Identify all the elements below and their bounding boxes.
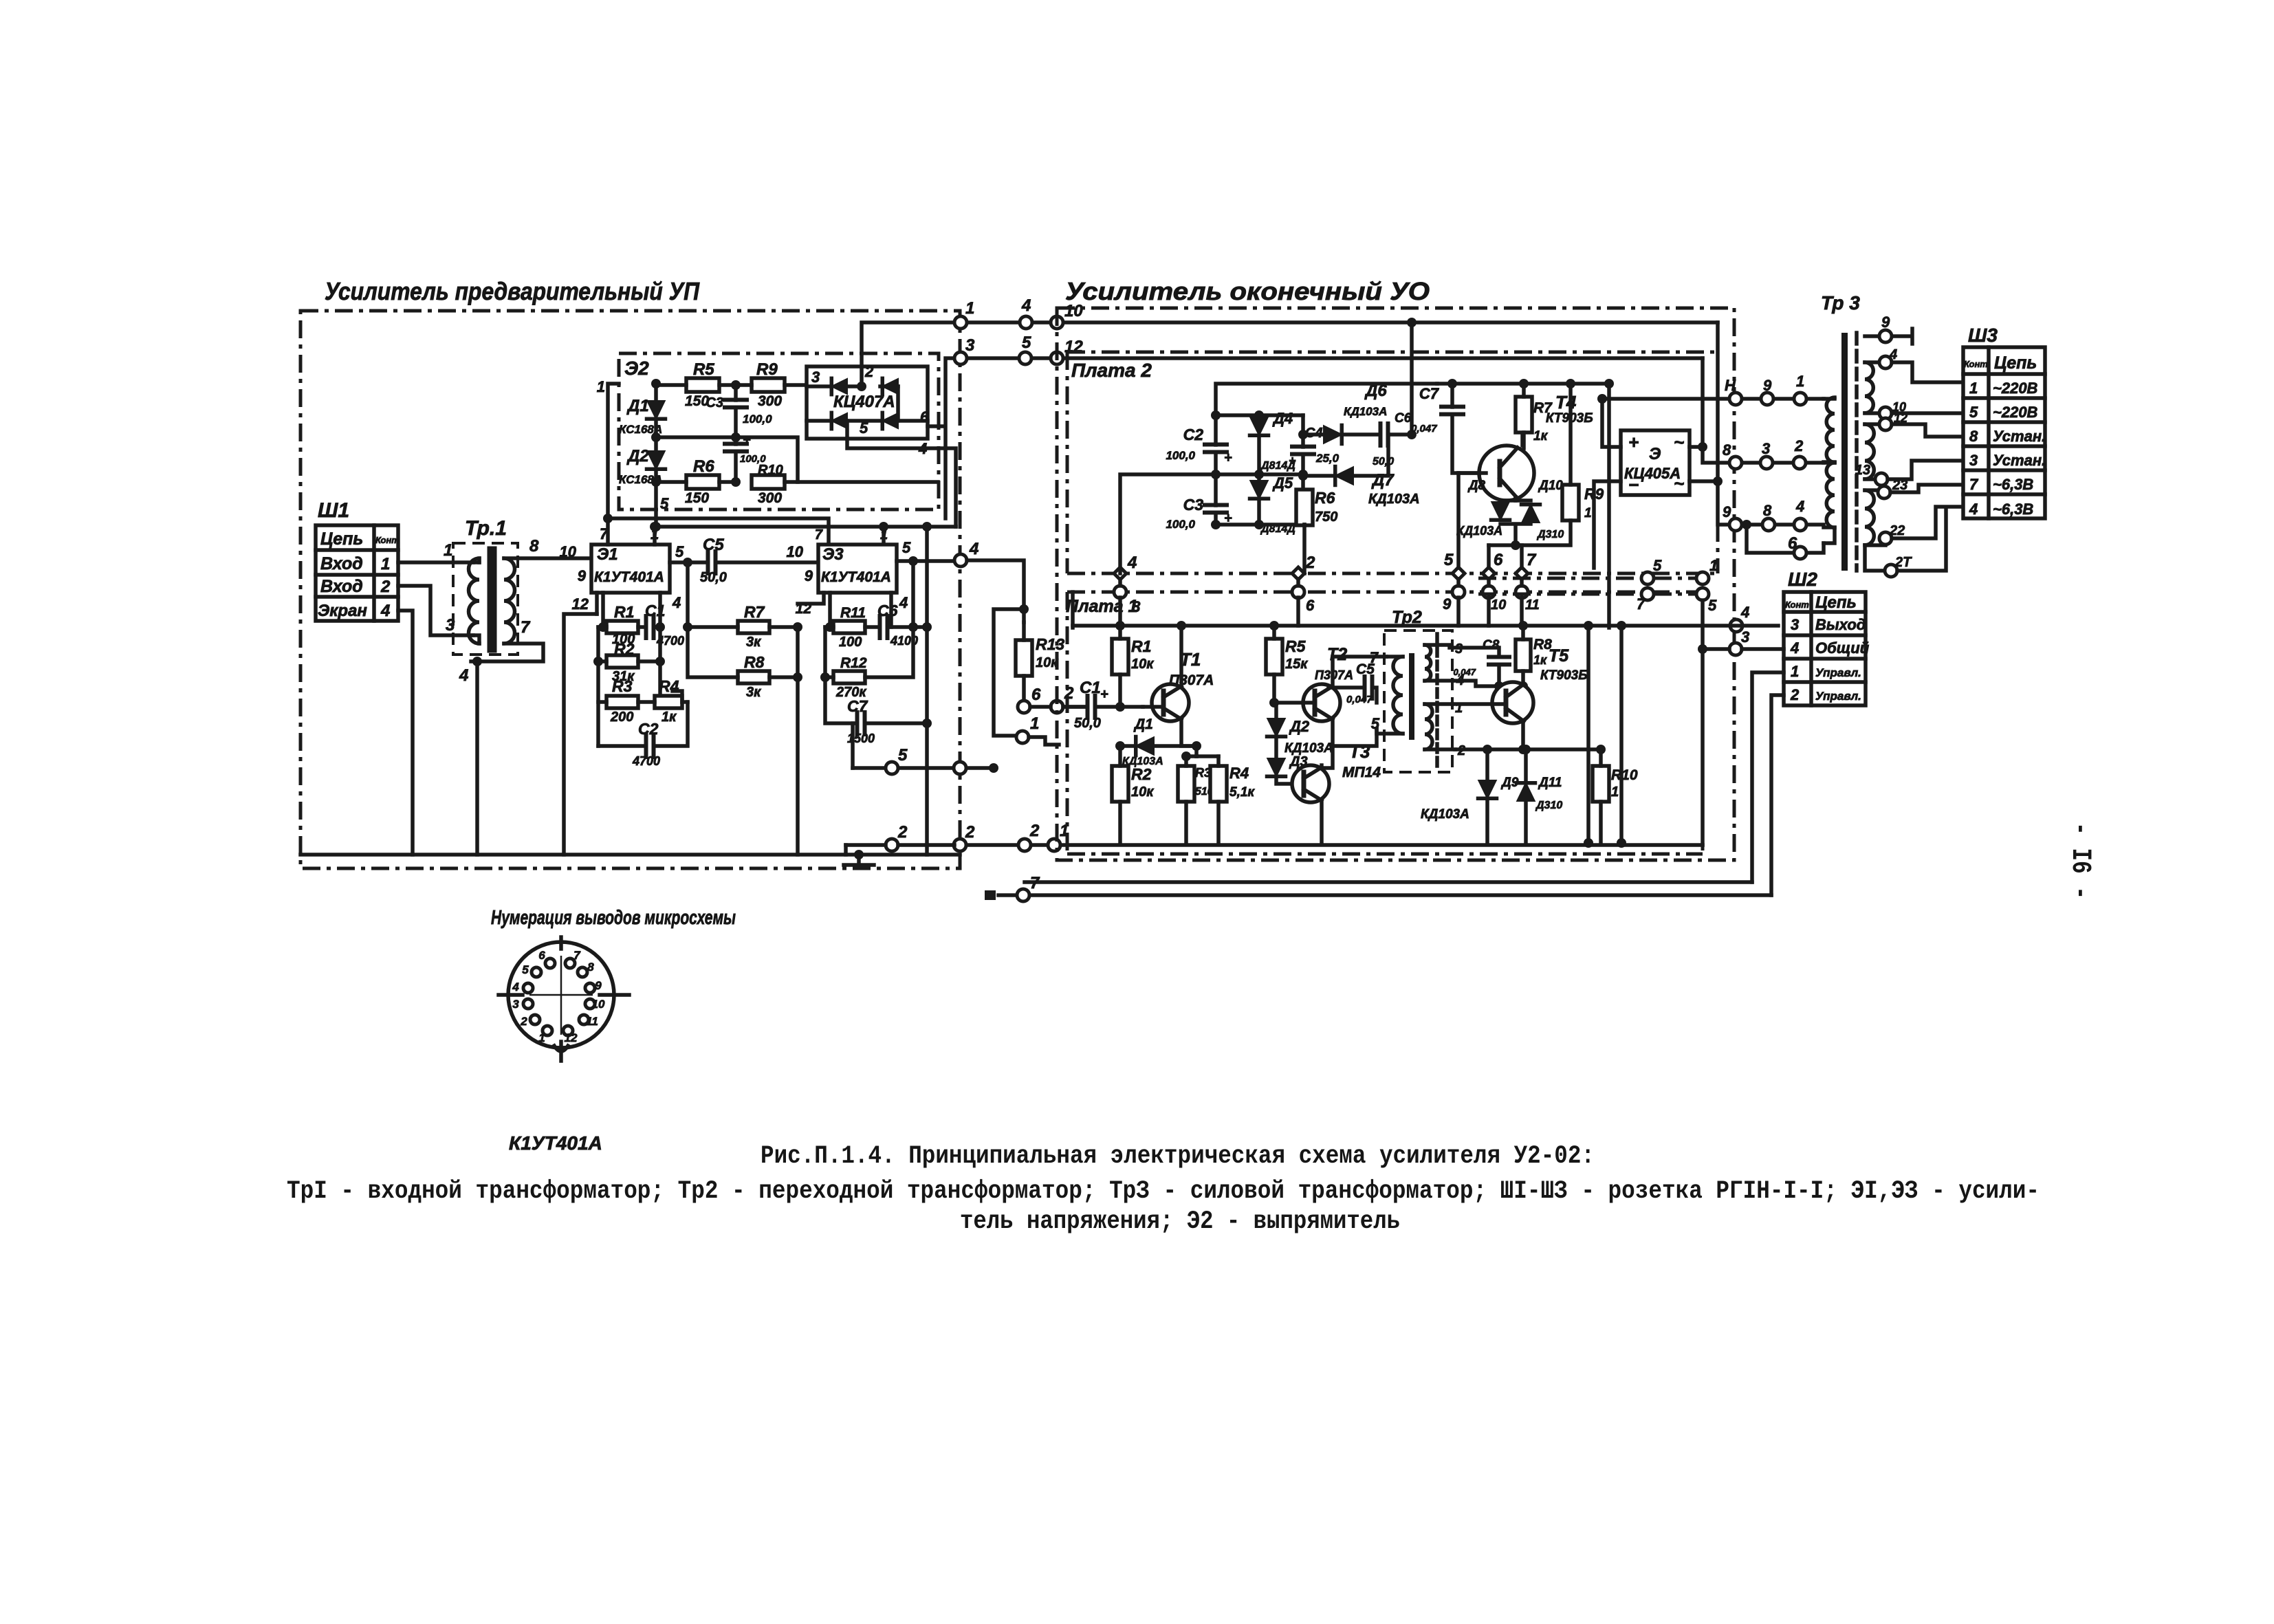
diode Д6 КД103А bbox=[1324, 426, 1342, 443]
svg-text:9: 9 bbox=[1443, 595, 1452, 613]
wire Ш1.4 shield to ground rail bbox=[398, 611, 413, 855]
wires Д4 Д5 column bbox=[1257, 415, 1261, 525]
ground symbol bbox=[844, 855, 874, 865]
svg-text:1: 1 bbox=[538, 1031, 545, 1044]
svg-text:300: 300 bbox=[758, 393, 782, 409]
svg-text:6: 6 bbox=[1494, 551, 1503, 569]
svg-text:Цепь: Цепь bbox=[1994, 353, 2037, 373]
svg-text:5: 5 bbox=[1708, 597, 1717, 614]
svg-text:4: 4 bbox=[1021, 296, 1031, 315]
resistor R2 10к bbox=[1112, 766, 1128, 802]
wire Тр1 pin4 down to rail bbox=[475, 661, 479, 855]
svg-text:+: + bbox=[1100, 687, 1108, 702]
svg-text:К1УТ401А: К1УТ401А bbox=[509, 1132, 602, 1154]
svg-text:Д2: Д2 bbox=[626, 447, 649, 465]
svg-text:Т2: Т2 bbox=[1327, 645, 1347, 664]
svg-text:5: 5 bbox=[898, 746, 908, 765]
resistor R10 300 bbox=[752, 475, 785, 489]
svg-text:Экран: Экран bbox=[318, 602, 367, 620]
ground rail УП bbox=[300, 853, 960, 857]
svg-text:1к: 1к bbox=[662, 710, 677, 725]
terminal 5 bbox=[1019, 352, 1031, 364]
node row right 1-5 bbox=[1641, 572, 1654, 584]
svg-text:11: 11 bbox=[586, 1015, 598, 1028]
transformer Тр3 primary winding lower bbox=[1824, 461, 1835, 465]
svg-text:10: 10 bbox=[1491, 597, 1506, 613]
diode Д2 КД103А bbox=[1267, 718, 1285, 736]
svg-text:Цепь: Цепь bbox=[320, 529, 363, 549]
wire loop Общий bbox=[1025, 880, 1752, 884]
wire КЦ407А pin2 to bus1 bbox=[862, 322, 954, 366]
svg-text:2: 2 bbox=[1029, 822, 1040, 840]
svg-text:7: 7 bbox=[1637, 595, 1646, 613]
wires Ш2 rows bbox=[1730, 619, 1742, 632]
svg-text:С5: С5 bbox=[703, 536, 724, 554]
capacitor C3 100,0 плата2 bbox=[1205, 505, 1227, 513]
svg-text:Рис.П.1.4. Принципиальная элек: Рис.П.1.4. Принципиальная электрическая … bbox=[761, 1142, 1595, 1171]
svg-text:1к: 1к bbox=[1533, 653, 1547, 667]
svg-text:Усилитель оконечный УО: Усилитель оконечный УО bbox=[1065, 277, 1430, 305]
transformer Тр2 secondary lower bbox=[1425, 704, 1432, 749]
resistor R8 3к bbox=[738, 671, 769, 683]
svg-text:~: ~ bbox=[1674, 473, 1684, 494]
svg-text:4: 4 bbox=[672, 594, 681, 611]
wire плата2 cluster to node2 bbox=[1302, 525, 1307, 573]
capacitor С8 0,047 bbox=[1489, 657, 1509, 665]
wire loop Управл bbox=[998, 893, 1771, 897]
svg-text:2: 2 bbox=[897, 823, 908, 842]
rectifier bridge КЦ407А bbox=[807, 366, 928, 439]
bus wire 1-4-10 bbox=[967, 320, 1718, 325]
transformer Тр2 primary bbox=[1386, 655, 1403, 659]
svg-text:С6: С6 bbox=[877, 602, 898, 619]
svg-text:25,0: 25,0 bbox=[1315, 452, 1340, 465]
wires C2 C3 column bbox=[1214, 415, 1218, 525]
wire Э3 pin12/pin4 bbox=[825, 593, 891, 677]
svg-text:8: 8 bbox=[1723, 441, 1731, 459]
svg-text:5: 5 bbox=[1371, 715, 1380, 732]
transformer Тр2 secondary upper bbox=[1425, 645, 1431, 681]
svg-text:3: 3 bbox=[965, 336, 975, 355]
wire Т2 emitter to Т3 collector bbox=[1322, 719, 1333, 768]
svg-text:2: 2 bbox=[1790, 686, 1800, 703]
svg-text:Выход: Выход bbox=[1815, 616, 1866, 633]
svg-text:Д310: Д310 bbox=[1536, 529, 1564, 540]
capacitor C3 100,0 bbox=[725, 400, 747, 408]
capacitor C7 0,047 bbox=[1441, 407, 1463, 415]
rectifier Э КЦ405А bbox=[1621, 430, 1690, 495]
wire Т1 collector to rail bbox=[1179, 626, 1183, 687]
svg-text:2: 2 bbox=[1794, 437, 1804, 454]
wire Э2 pin1 to Э1 pin7 bbox=[608, 384, 619, 545]
svg-text:тель напряжения; Э2 - выпрямит: тель напряжения; Э2 - выпрямитель bbox=[960, 1207, 1400, 1236]
svg-text:2: 2 bbox=[965, 823, 975, 842]
svg-text:Тр.1: Тр.1 bbox=[465, 517, 507, 540]
svg-text:9: 9 bbox=[1723, 503, 1731, 520]
svg-text:4: 4 bbox=[1969, 501, 1978, 518]
wire row 5 into УП bbox=[851, 723, 855, 768]
svg-text:1: 1 bbox=[444, 541, 452, 560]
wire КЦ407А pin6 loop bbox=[928, 358, 954, 518]
svg-text:С1: С1 bbox=[1080, 679, 1101, 697]
svg-text:R5: R5 bbox=[693, 360, 714, 379]
svg-text:6: 6 bbox=[538, 949, 545, 962]
svg-text:2: 2 bbox=[520, 1015, 527, 1028]
wire Э3 pin9 down bbox=[798, 593, 824, 604]
svg-text:КД103А: КД103А bbox=[1368, 492, 1420, 507]
svg-text:Д11: Д11 bbox=[1538, 776, 1562, 790]
svg-text:Устан.: Устан. bbox=[1993, 428, 2046, 445]
svg-text:1: 1 bbox=[965, 299, 974, 318]
capacitor C1 4700 bbox=[646, 616, 654, 638]
svg-text:1к: 1к bbox=[1533, 429, 1549, 443]
wire left interface into плата1 bbox=[1071, 592, 1075, 628]
svg-text:0,047: 0,047 bbox=[1411, 423, 1437, 435]
svg-text:С6: С6 bbox=[1395, 411, 1412, 426]
resistor R9 1 bbox=[1562, 485, 1579, 520]
wire parallel drop bbox=[994, 609, 1024, 736]
svg-text:Тр2: Тр2 bbox=[1392, 608, 1422, 627]
wires Тр3 to Ш3 bbox=[1892, 362, 1963, 382]
svg-text:3: 3 bbox=[512, 998, 519, 1011]
svg-text:3: 3 bbox=[1741, 628, 1749, 646]
svg-text:Д5: Д5 bbox=[1272, 474, 1293, 492]
svg-text:4: 4 bbox=[969, 540, 979, 558]
terminal 1 bbox=[1016, 731, 1029, 743]
svg-text:5,1к: 5,1к bbox=[1229, 785, 1255, 800]
svg-text:9: 9 bbox=[595, 979, 602, 992]
svg-text:7: 7 bbox=[573, 949, 581, 962]
wire Ш1.2 to Тр1 pin3 bbox=[398, 586, 473, 635]
svg-text:6: 6 bbox=[920, 408, 929, 426]
wire Т3 emitter down bbox=[1320, 800, 1324, 844]
svg-text:Д1: Д1 bbox=[1133, 716, 1153, 732]
wire row 9-8-4 to Тр3 bbox=[1740, 523, 1824, 527]
capacitor C6 4100 bbox=[880, 616, 888, 638]
pinout notch bbox=[554, 1046, 568, 1051]
wires из nodes to плата1 bbox=[1120, 579, 1522, 586]
svg-text:0,047: 0,047 bbox=[1453, 667, 1476, 677]
diode Д9 КД103А bbox=[1478, 780, 1496, 798]
terminal 6 bbox=[1018, 701, 1030, 713]
svg-text:100,0: 100,0 bbox=[1166, 449, 1195, 462]
wire плата1 вход from С1 bbox=[1063, 705, 1087, 709]
svg-text:R11: R11 bbox=[840, 605, 866, 621]
resistor R10 1 bbox=[1593, 766, 1609, 802]
capacitor С5 0,047 bbox=[1365, 677, 1373, 699]
frame Плата 1 dashed box bbox=[1067, 592, 1703, 854]
svg-text:10к: 10к bbox=[1131, 784, 1154, 800]
resistor R6 150 bbox=[686, 475, 719, 489]
svg-text:КТ903Б: КТ903Б bbox=[1540, 668, 1588, 683]
wire C6 to bus1 bbox=[1410, 322, 1414, 435]
svg-text:4: 4 bbox=[1740, 604, 1749, 621]
svg-text:R2: R2 bbox=[1131, 765, 1152, 783]
rails плата2 cluster bbox=[1216, 415, 1304, 525]
resistor R6 750 bbox=[1296, 490, 1313, 525]
svg-text:5: 5 bbox=[1444, 551, 1454, 569]
svg-text:4: 4 bbox=[380, 602, 390, 620]
svg-text:3к: 3к bbox=[746, 685, 761, 700]
svg-text:Нумерация выводов микросхемы: Нумерация выводов микросхемы bbox=[491, 907, 736, 929]
svg-text:5: 5 bbox=[522, 963, 529, 976]
svg-text:+: + bbox=[1224, 450, 1232, 465]
svg-text:R3: R3 bbox=[612, 677, 633, 695]
capacitor C4 25,0 bbox=[1292, 447, 1314, 454]
zener Д2 bbox=[647, 451, 665, 469]
svg-text:С8: С8 bbox=[1483, 638, 1500, 652]
svg-text:2: 2 bbox=[864, 363, 874, 380]
terminal 3 bbox=[954, 352, 967, 364]
svg-text:Плата 2: Плата 2 bbox=[1071, 360, 1152, 381]
svg-text:1: 1 bbox=[1030, 714, 1039, 733]
svg-text:Э: Э bbox=[1649, 445, 1661, 463]
svg-text:12: 12 bbox=[572, 595, 589, 613]
svg-text:8: 8 bbox=[1763, 502, 1772, 519]
svg-text:R7: R7 bbox=[744, 603, 765, 621]
capacitor C6 50,0 bbox=[1381, 424, 1388, 446]
svg-text:~220В: ~220В bbox=[1993, 404, 2038, 421]
svg-text:С3: С3 bbox=[1183, 496, 1204, 514]
capacitor C7 1500 bbox=[857, 712, 865, 734]
svg-text:Ш2: Ш2 bbox=[1788, 569, 1817, 590]
resistor R13 10к bbox=[1016, 640, 1032, 676]
terminal 10 bbox=[1051, 316, 1063, 329]
svg-text:R9: R9 bbox=[756, 360, 778, 379]
resistor R12 270к bbox=[833, 671, 865, 683]
svg-text:R5: R5 bbox=[1285, 637, 1307, 655]
svg-text:8: 8 bbox=[529, 537, 539, 556]
transistor Т4 КТ903Б bbox=[1479, 446, 1534, 501]
diode Д7 КД103А bbox=[1335, 467, 1353, 485]
svg-text:R12: R12 bbox=[840, 655, 867, 671]
svg-text:1: 1 bbox=[1796, 373, 1804, 390]
svg-text:10к: 10к bbox=[1131, 657, 1154, 672]
svg-text:6: 6 bbox=[1306, 597, 1315, 614]
svg-text:Т5: Т5 bbox=[1549, 646, 1569, 666]
feedback network Э3: resistor R11 100 bbox=[833, 621, 865, 633]
svg-text:+: + bbox=[1628, 432, 1639, 452]
transistor Т1 П307А bbox=[1152, 684, 1189, 721]
svg-text:R4: R4 bbox=[1229, 765, 1249, 782]
wire Т4 collector bbox=[1437, 384, 1609, 446]
wire Т3 collector bbox=[1333, 729, 1377, 746]
svg-text:5: 5 bbox=[902, 539, 911, 556]
svg-text:R2: R2 bbox=[614, 640, 635, 658]
transformer Тр3 primary winding upper bbox=[1824, 397, 1835, 401]
svg-text:50,0: 50,0 bbox=[1373, 456, 1394, 468]
svg-text:С3: С3 bbox=[706, 395, 723, 410]
svg-text:1: 1 bbox=[1709, 557, 1718, 574]
svg-text:КД103А: КД103А bbox=[1456, 524, 1502, 538]
wire Э1 pin12/pin4 feedback bbox=[598, 593, 660, 746]
svg-text:Общий: Общий bbox=[1815, 639, 1870, 657]
wire Э1 pin9 to rail bbox=[595, 593, 599, 614]
capacitor C5 50,0 bbox=[708, 551, 716, 573]
zener Д1 bbox=[647, 401, 665, 419]
transformer Тр1 secondary winding bbox=[504, 558, 515, 644]
diode Д11 Д310 bbox=[1517, 783, 1535, 801]
svg-text:R1: R1 bbox=[614, 603, 634, 621]
svg-text:7: 7 bbox=[815, 527, 823, 542]
svg-text:13: 13 bbox=[1855, 463, 1870, 478]
svg-text:Д10: Д10 bbox=[1538, 479, 1563, 493]
terminal 1 bbox=[954, 316, 967, 329]
svg-text:R10: R10 bbox=[1611, 767, 1638, 783]
svg-text:50,0: 50,0 bbox=[1074, 716, 1101, 731]
svg-text:Ш1: Ш1 bbox=[318, 499, 349, 522]
svg-text:4: 4 bbox=[512, 980, 519, 994]
svg-text:2: 2 bbox=[380, 578, 391, 596]
svg-text:5: 5 bbox=[1022, 333, 1031, 352]
svg-text:3: 3 bbox=[1791, 616, 1799, 633]
transistor Т5 КТ903Б bbox=[1492, 682, 1533, 723]
svg-text:Тр 3: Тр 3 bbox=[1821, 292, 1860, 314]
svg-text:Конт: Конт bbox=[375, 535, 400, 545]
wire Т5 emitter bbox=[1455, 747, 1601, 751]
block Э2 dashed box bbox=[619, 353, 939, 509]
svg-text:6: 6 bbox=[1031, 685, 1041, 704]
svg-text:+: + bbox=[1289, 454, 1296, 468]
svg-text:0,047: 0,047 bbox=[1346, 694, 1373, 705]
svg-text:С7: С7 bbox=[1419, 385, 1440, 402]
svg-text:Д2: Д2 bbox=[1289, 718, 1310, 735]
svg-text:7: 7 bbox=[1030, 874, 1040, 892]
svg-text:10: 10 bbox=[787, 543, 804, 560]
svg-text:2Т: 2Т bbox=[1894, 555, 1912, 570]
svg-text:К1УТ401А: К1УТ401А bbox=[821, 569, 891, 585]
svg-text:R13: R13 bbox=[1036, 635, 1064, 653]
svg-text:8: 8 bbox=[1132, 598, 1141, 615]
wire row 5 interface bbox=[853, 766, 994, 770]
svg-text:5: 5 bbox=[660, 495, 669, 512]
pinout circle К1УТ401А bbox=[508, 942, 614, 1048]
svg-text:С2: С2 bbox=[1183, 426, 1204, 443]
svg-text:Д8: Д8 bbox=[1467, 479, 1486, 493]
wire Т5 Т4 collectors right bbox=[1607, 384, 1611, 628]
svg-text:ТрI - входной трансформатор; Т: ТрI - входной трансформатор; Тр2 - перех… bbox=[287, 1177, 2040, 1206]
svg-text:9: 9 bbox=[805, 567, 813, 584]
svg-text:Э2: Э2 bbox=[624, 358, 649, 379]
svg-text:R1: R1 bbox=[1131, 637, 1151, 655]
wire Ш1.1 to Тр1 pin1 bbox=[398, 560, 473, 564]
svg-text:10: 10 bbox=[560, 543, 577, 560]
wires to nodes 5 6 7 bbox=[1458, 473, 1522, 568]
wire Т1 emitter bbox=[1181, 719, 1196, 756]
resistor R5 15к bbox=[1266, 639, 1282, 674]
svg-text:4: 4 bbox=[1790, 639, 1799, 657]
wire loop Выход bbox=[1701, 649, 1705, 845]
wires КЦ405А bbox=[1594, 399, 1621, 568]
node row right 7-5 bbox=[1641, 588, 1654, 600]
wire плата2 cluster left to node4 bbox=[1120, 474, 1216, 573]
svg-text:Вход: Вход bbox=[320, 577, 363, 596]
svg-text:Конт: Конт bbox=[1785, 600, 1809, 610]
svg-text:КЦ407А: КЦ407А bbox=[833, 393, 895, 411]
diode Д10 Д310 bbox=[1522, 505, 1540, 523]
frame Плата 2 dashed box bbox=[1067, 352, 1718, 573]
svg-text:5: 5 bbox=[1653, 557, 1662, 574]
transformer Тр1 primary winding bbox=[473, 560, 479, 564]
svg-text:7: 7 bbox=[1969, 476, 1979, 493]
op-amp Э1 К1УТ401А bbox=[591, 545, 670, 593]
bus2 drop right bbox=[1703, 358, 1742, 463]
resistor R4 5,1к bbox=[1210, 766, 1227, 802]
svg-text:9: 9 bbox=[1881, 314, 1890, 331]
diode Д8 КД103А bbox=[1491, 502, 1509, 520]
svg-text:~220В: ~220В bbox=[1993, 380, 2038, 397]
svg-text:С7: С7 bbox=[847, 697, 868, 715]
svg-text:R6: R6 bbox=[693, 457, 714, 476]
trim resistor R4 1к bbox=[655, 696, 682, 708]
svg-text:~6,3В: ~6,3В bbox=[1993, 476, 2033, 493]
svg-text:8: 8 bbox=[1969, 428, 1978, 445]
wire Э1 pin1 to Э3 pin1 rail bbox=[655, 527, 956, 545]
resistor R9 300 bbox=[752, 378, 785, 392]
svg-text:КД103А: КД103А bbox=[1421, 807, 1469, 822]
capacitor C2 4700 bbox=[646, 735, 654, 757]
svg-text:1: 1 bbox=[1611, 784, 1619, 800]
svg-text:Устан.: Устан. bbox=[1993, 452, 2046, 469]
op-amp Э3 К1УТ401А bbox=[818, 545, 897, 593]
wire Т1 base-emitter nets bbox=[1196, 754, 1218, 758]
wire mid rail Э2 bbox=[656, 437, 798, 482]
wire R8 C8 net bbox=[1499, 684, 1523, 688]
svg-text:3к: 3к bbox=[746, 635, 761, 650]
svg-text:1: 1 bbox=[1791, 663, 1799, 680]
wire Н row to Тр3 bbox=[1602, 397, 1824, 401]
wire pin 6 stub bbox=[1747, 525, 1824, 553]
svg-text:+: + bbox=[743, 432, 751, 448]
svg-text:4: 4 bbox=[1889, 347, 1897, 362]
wire Д1-Д2 chain bbox=[654, 384, 658, 527]
svg-text:Управл.: Управл. bbox=[1815, 666, 1861, 679]
zener Д5 Д814Д bbox=[1250, 481, 1268, 498]
svg-text:1: 1 bbox=[1969, 380, 1978, 397]
svg-text:Д1: Д1 bbox=[626, 397, 649, 415]
svg-text:10: 10 bbox=[592, 998, 605, 1011]
zener Д4 Д814Д bbox=[1250, 417, 1268, 435]
svg-text:~: ~ bbox=[1674, 432, 1684, 452]
svg-text:Д310: Д310 bbox=[1535, 800, 1562, 811]
svg-text:7: 7 bbox=[521, 618, 531, 637]
transistor Т3 МП14 bbox=[1292, 765, 1329, 802]
svg-text:5: 5 bbox=[1969, 404, 1978, 421]
svg-text:Д4: Д4 bbox=[1272, 410, 1293, 427]
node row Плата1 top bbox=[1114, 586, 1126, 598]
svg-text:Цепь: Цепь bbox=[1815, 593, 1857, 612]
svg-text:8: 8 bbox=[587, 961, 594, 974]
resistor R7 1к bbox=[1516, 397, 1532, 432]
svg-text:10к: 10к bbox=[1036, 655, 1058, 670]
svg-text:КД103А: КД103А bbox=[1284, 741, 1333, 756]
capacitor C2 100,0 плата2 bbox=[1205, 445, 1227, 452]
svg-text:4700: 4700 bbox=[632, 754, 660, 768]
svg-text:9: 9 bbox=[578, 567, 587, 584]
resistor R3 510 bbox=[1178, 766, 1194, 802]
terminal Тр3 top 9 center tap bbox=[1865, 329, 1912, 344]
wire vertical x1348 bbox=[925, 527, 929, 855]
resistor R5 150 bbox=[686, 378, 719, 392]
wire C5 to R7 column bbox=[686, 562, 690, 627]
rail plate2 top bbox=[1216, 384, 1437, 415]
pinout pins bbox=[545, 958, 555, 968]
resistor R7 3к bbox=[738, 621, 769, 633]
svg-text:Д7: Д7 bbox=[1371, 471, 1395, 490]
diode Д3 bbox=[1267, 758, 1285, 776]
resistor R8 1к bbox=[1516, 639, 1531, 671]
svg-text:КД103А: КД103А bbox=[1344, 405, 1387, 418]
